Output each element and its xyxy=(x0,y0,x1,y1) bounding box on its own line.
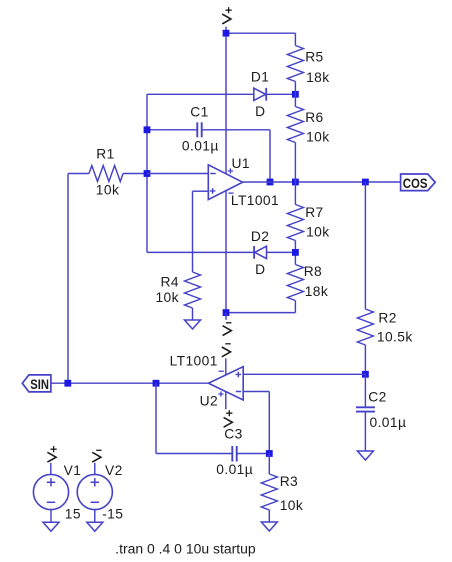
svg-text:D: D xyxy=(255,262,265,277)
R1 value label 10k xyxy=(96,182,119,197)
wire U2 output to SIN xyxy=(51,382,209,384)
svg-text:V2: V2 xyxy=(105,463,123,478)
wire U1 non-inverting input xyxy=(193,190,209,192)
R2 value label 10.5k xyxy=(377,330,413,345)
wire inverting-input vertical xyxy=(146,94,148,252)
node output/R2 junction xyxy=(362,179,369,186)
resistor R8 xyxy=(287,252,322,312)
node C3/R3 junction xyxy=(266,450,273,457)
ground below R4 xyxy=(185,320,201,329)
wire V2 to ground xyxy=(94,510,96,523)
svg-text:R7: R7 xyxy=(305,205,323,220)
node D2/R7/R8 junction xyxy=(292,249,299,256)
resistor R5 xyxy=(287,33,323,94)
wire D1 cathode to R5/R6 junction xyxy=(266,93,295,95)
R8 value label 18k xyxy=(305,284,328,299)
svg-text:V1: V1 xyxy=(64,463,82,478)
svg-text:C1: C1 xyxy=(190,105,208,120)
svg-text:15: 15 xyxy=(65,507,81,522)
svg-text:D1: D1 xyxy=(251,69,269,84)
svg-text:R8: R8 xyxy=(304,264,322,279)
resistor R7 xyxy=(287,182,323,252)
svg-text:10k: 10k xyxy=(96,182,119,197)
U1 value label LT1001 xyxy=(231,193,279,208)
node C1 output junction xyxy=(267,179,274,186)
R6 value label 10k xyxy=(306,129,329,144)
wire U1 V- pin down to V- node xyxy=(225,191,227,313)
wire U2 inverting input feedback xyxy=(243,392,269,454)
wire left vertical from R1 to SIN xyxy=(67,174,69,384)
resistor R4 xyxy=(160,272,200,320)
node C1 left junction xyxy=(144,126,151,133)
node R1 / inverting input junction xyxy=(144,170,151,177)
svg-text:10k: 10k xyxy=(155,290,178,305)
V2 value label -15 xyxy=(102,507,123,522)
C1 value label 0.01u xyxy=(182,139,219,154)
svg-text:U1: U1 xyxy=(232,156,250,171)
svg-text:R6: R6 xyxy=(305,110,323,125)
resistor R1 xyxy=(68,146,147,181)
R3 value label 10k xyxy=(280,498,303,513)
svg-text:D2: D2 xyxy=(251,229,269,244)
wire output down to R2 xyxy=(364,182,366,309)
C3 value label 0.01u xyxy=(216,462,253,477)
resistor R6 xyxy=(287,94,323,182)
wire C1 to output xyxy=(269,130,271,182)
wire U2 +input to R2/C2 xyxy=(243,373,365,375)
resistor R2 xyxy=(357,309,396,374)
diode D2 xyxy=(251,229,269,259)
svg-text:R1: R1 xyxy=(96,146,114,161)
wire D2 right xyxy=(267,251,296,253)
wire V+ rail down to U1 V+ pin xyxy=(225,27,227,174)
wire D2 left xyxy=(147,251,254,253)
U2 value label LT1001 xyxy=(170,353,218,368)
wire C1 left xyxy=(147,129,197,131)
svg-text:R4: R4 xyxy=(160,275,178,290)
wire U1 inverting input xyxy=(147,173,208,175)
R4 value label 10k xyxy=(155,290,178,305)
capacitor C1 xyxy=(190,105,208,138)
flag COS xyxy=(401,174,436,191)
C2 value label 0.01u xyxy=(370,415,407,430)
svg-text:0.01µ: 0.01µ xyxy=(216,462,253,477)
ground below C2 xyxy=(357,451,373,460)
node output/R6/R7 junction xyxy=(292,179,299,186)
ground below V2 xyxy=(87,522,103,531)
svg-text:LT1001: LT1001 xyxy=(231,193,279,208)
svg-text:10k: 10k xyxy=(306,225,329,240)
flag SIN xyxy=(22,375,51,392)
svg-text:.tran 0 .4 0 10u startup: .tran 0 .4 0 10u startup xyxy=(115,542,256,557)
svg-text:-15: -15 xyxy=(102,507,123,522)
svg-text:18k: 18k xyxy=(306,70,329,85)
ground below R3 xyxy=(261,522,277,531)
power flag V+ of V1 xyxy=(47,446,56,474)
voltage source V1 xyxy=(33,463,81,510)
wire V- to R8 bottom xyxy=(226,312,295,314)
wire D1 anode xyxy=(147,93,254,95)
svg-text:10k: 10k xyxy=(306,129,329,144)
wire top rail horizontal xyxy=(226,32,295,34)
svg-text:LT1001: LT1001 xyxy=(170,353,218,368)
capacitor C2 xyxy=(356,374,387,451)
D1 value label D xyxy=(255,104,265,119)
diode D1 xyxy=(251,69,269,100)
capacitor C3 xyxy=(224,426,242,461)
svg-text:10k: 10k xyxy=(280,498,303,513)
svg-text:SIN: SIN xyxy=(30,377,49,392)
node SIN/C3 junction xyxy=(153,380,160,387)
svg-text:D: D xyxy=(255,104,265,119)
node SIN/R1 junction xyxy=(64,380,71,387)
D2 value label D xyxy=(255,262,265,277)
wire V1 to ground xyxy=(50,510,52,523)
V1 value label 15 xyxy=(65,507,81,522)
wire U1 output to COS xyxy=(243,181,401,183)
node R2/C2/U2 junction xyxy=(362,371,369,378)
op-amp U2 xyxy=(200,367,244,409)
wire C3 left xyxy=(156,453,232,455)
power flag V- rail xyxy=(223,313,232,336)
resistor R3 xyxy=(261,454,298,523)
power flag V- of U2 xyxy=(222,344,231,375)
svg-text:10.5k: 10.5k xyxy=(377,330,413,345)
wire C3 right xyxy=(237,453,270,455)
ground below V1 xyxy=(43,522,59,531)
node D1/R5/R6 junction xyxy=(292,91,299,98)
power flag V- of V2 xyxy=(92,450,101,474)
wire C1 right xyxy=(202,129,270,131)
wire non-inverting input down to R4 xyxy=(192,191,194,272)
svg-text:U2: U2 xyxy=(200,394,218,409)
op-amp U1 xyxy=(208,156,250,200)
R7 value label 10k xyxy=(306,225,329,240)
svg-text:C2: C2 xyxy=(368,390,386,405)
voltage source V2 xyxy=(77,463,122,510)
node V- junction xyxy=(223,309,230,316)
svg-text:18k: 18k xyxy=(305,284,328,299)
svg-text:COS: COS xyxy=(403,176,428,191)
spice directive .tran xyxy=(115,542,256,557)
svg-text:C3: C3 xyxy=(224,426,242,441)
svg-text:R5: R5 xyxy=(305,49,323,64)
node V+ top junction xyxy=(223,30,230,37)
power flag V+ top xyxy=(222,7,232,24)
wire SIN down to C3 xyxy=(155,383,157,453)
R5 value label 18k xyxy=(306,70,329,85)
svg-text:0.01µ: 0.01µ xyxy=(182,139,219,154)
power flag V+ of U2 xyxy=(224,392,233,427)
svg-text:R3: R3 xyxy=(280,474,298,489)
svg-text:0.01µ: 0.01µ xyxy=(370,415,407,430)
svg-text:R2: R2 xyxy=(378,311,396,326)
